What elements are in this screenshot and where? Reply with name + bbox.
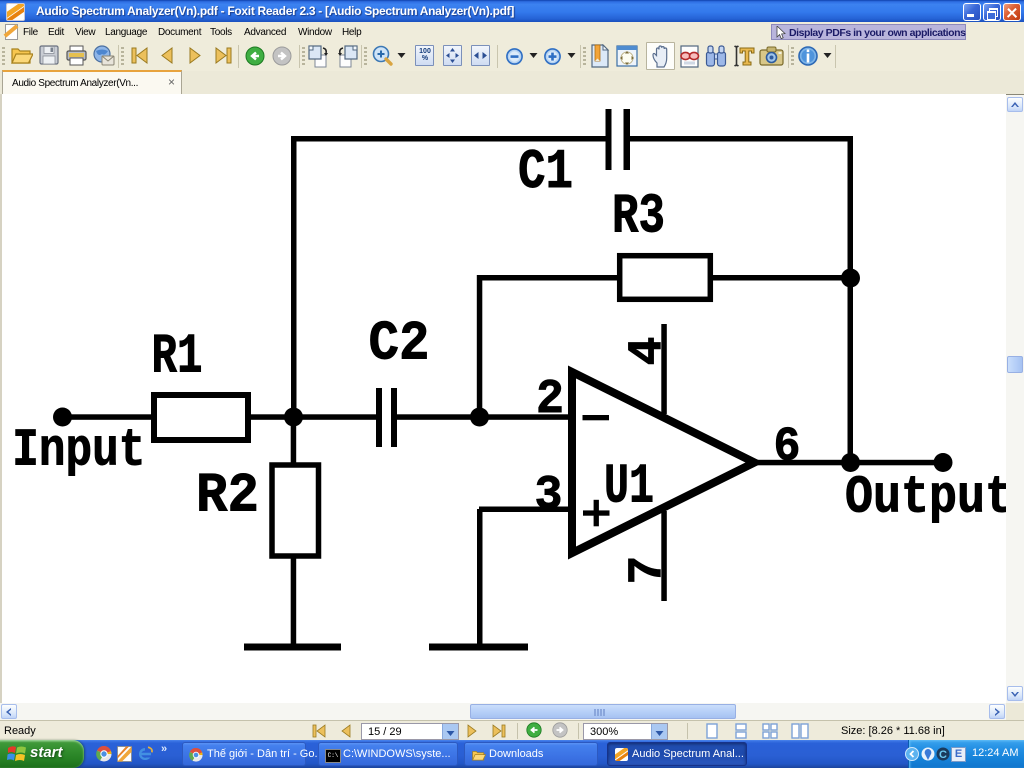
scroll right button xyxy=(989,704,1005,719)
quick launch: painter xyxy=(117,746,132,762)
task button 2 xyxy=(318,742,458,766)
page number combo xyxy=(361,723,459,740)
rotate clockwise icon xyxy=(307,44,331,68)
scroll down button xyxy=(1007,686,1023,701)
node R3/C1 junction xyxy=(841,269,860,288)
task button 1 xyxy=(182,742,306,766)
zoom tool icon xyxy=(371,45,395,68)
resistor R3 xyxy=(620,256,711,300)
ground (pin 3) xyxy=(429,644,528,651)
go forward icon (disabled) xyxy=(272,46,292,66)
layout continuous button xyxy=(733,723,749,739)
status last page button xyxy=(491,724,508,738)
wire left vertical (node A to top) xyxy=(291,136,297,420)
wire output xyxy=(754,460,943,466)
svg-text:R1: R1 xyxy=(152,325,203,389)
wire top-right horizontal (C1 right lead) xyxy=(628,136,853,142)
svg-text:6: 6 xyxy=(774,420,801,474)
resistor R2 xyxy=(272,465,319,556)
fit visible icon xyxy=(616,45,638,67)
send email icon xyxy=(92,45,115,66)
svg-text:7: 7 xyxy=(622,556,676,585)
fit page button xyxy=(443,45,462,66)
wire R2 to ground xyxy=(291,558,297,647)
restore button xyxy=(983,3,1001,21)
wire C2 to op-amp pin 2 xyxy=(397,414,571,420)
wire input to R1 xyxy=(62,414,154,420)
wire node A down to R2 xyxy=(291,417,297,463)
status prev page button xyxy=(340,724,352,738)
quick launch chevron xyxy=(161,743,167,755)
vertical scroll thumb xyxy=(1007,356,1023,373)
svg-text:C: C xyxy=(939,749,947,761)
wire right vertical (C1 to output node) xyxy=(848,136,854,465)
zoom combo xyxy=(583,723,668,740)
op-amp U1 triangle xyxy=(572,372,755,553)
node output terminal xyxy=(934,453,953,472)
dropdown caret xyxy=(397,52,406,59)
fit width button xyxy=(471,45,490,66)
node B junction xyxy=(470,408,489,427)
status back button xyxy=(526,722,542,738)
wire R1 to node A xyxy=(251,414,376,420)
schematic SVG goes here xyxy=(2,94,1008,703)
bookmark page icon xyxy=(590,44,610,68)
capacitor C2 xyxy=(376,388,382,447)
svg-text:U1: U1 xyxy=(604,455,654,519)
open folder icon xyxy=(10,45,33,66)
pin 4 stub xyxy=(661,324,667,414)
layout continuous facing button xyxy=(791,723,809,739)
menu bar doc icon xyxy=(5,24,18,40)
status forward button (disabled) xyxy=(552,722,568,738)
quick launch: internet explorer xyxy=(137,746,154,762)
tooltip: Display PDFs in your own applications xyxy=(771,24,966,40)
scroll left button xyxy=(1,704,17,719)
task button 4 (active) xyxy=(607,742,747,766)
reading glasses icon xyxy=(679,45,700,68)
prev page icon xyxy=(159,46,175,65)
print icon xyxy=(65,45,88,66)
svg-text:Input: Input xyxy=(12,421,145,481)
task button 3 xyxy=(464,742,598,766)
zoom 100% button xyxy=(415,45,434,66)
svg-text:R3: R3 xyxy=(612,185,665,249)
status next page button xyxy=(466,724,478,738)
quick launch: chrome xyxy=(96,746,112,762)
hand tool selected xyxy=(646,42,675,70)
svg-text:C1: C1 xyxy=(518,140,573,204)
svg-text:3: 3 xyxy=(535,469,563,523)
last page icon xyxy=(213,46,232,65)
tray messenger icon xyxy=(921,747,935,761)
horizontal scroll thumb xyxy=(470,704,736,719)
svg-text:2: 2 xyxy=(536,373,564,427)
system tray xyxy=(908,740,1024,768)
layout facing button xyxy=(762,723,778,739)
ground (R2) xyxy=(244,644,341,651)
op-amp plus sign xyxy=(583,510,610,515)
binoculars icon xyxy=(705,44,727,68)
svg-text:R2: R2 xyxy=(196,464,259,528)
tray C icon xyxy=(936,747,950,761)
minimize button xyxy=(963,3,981,21)
first page icon xyxy=(131,46,150,65)
snapshot camera icon xyxy=(759,46,784,66)
wire pin3 down to ground xyxy=(477,509,483,647)
svg-text:4: 4 xyxy=(622,337,676,366)
next page icon xyxy=(187,46,203,65)
app icon xyxy=(6,3,25,21)
close button xyxy=(1003,3,1021,21)
save floppy icon xyxy=(39,45,59,66)
scroll up button xyxy=(1007,97,1023,112)
info icon xyxy=(798,46,818,66)
go back icon xyxy=(245,46,265,66)
wire node B vertical (R3 lead down to C2 node) xyxy=(477,275,483,420)
wire op-amp pin 3 lead xyxy=(479,507,571,513)
select text icon xyxy=(732,44,755,68)
status first page button xyxy=(312,724,327,738)
resistor R1 xyxy=(154,395,248,440)
zoom in icon xyxy=(544,48,561,65)
zoom out icon xyxy=(506,48,523,65)
svg-text:Output: Output xyxy=(845,468,1008,528)
svg-text:C2: C2 xyxy=(369,312,430,376)
node input terminal xyxy=(53,408,72,427)
tray collapse chevron xyxy=(905,747,919,761)
layout single page button xyxy=(704,723,720,739)
pin 7 stub xyxy=(661,511,667,601)
op-amp minus sign xyxy=(583,415,610,420)
clock xyxy=(972,747,1018,759)
rotate counter-clockwise icon xyxy=(335,44,359,68)
start button xyxy=(0,740,84,768)
capacitor C1 xyxy=(606,109,612,170)
tray E icon xyxy=(951,747,966,762)
wire top-left horizontal (C1 left lead) xyxy=(291,136,608,142)
wire R3 right lead xyxy=(713,275,850,281)
node output junction xyxy=(841,453,860,472)
node A junction xyxy=(284,408,303,427)
wire R3 left lead xyxy=(479,275,617,281)
